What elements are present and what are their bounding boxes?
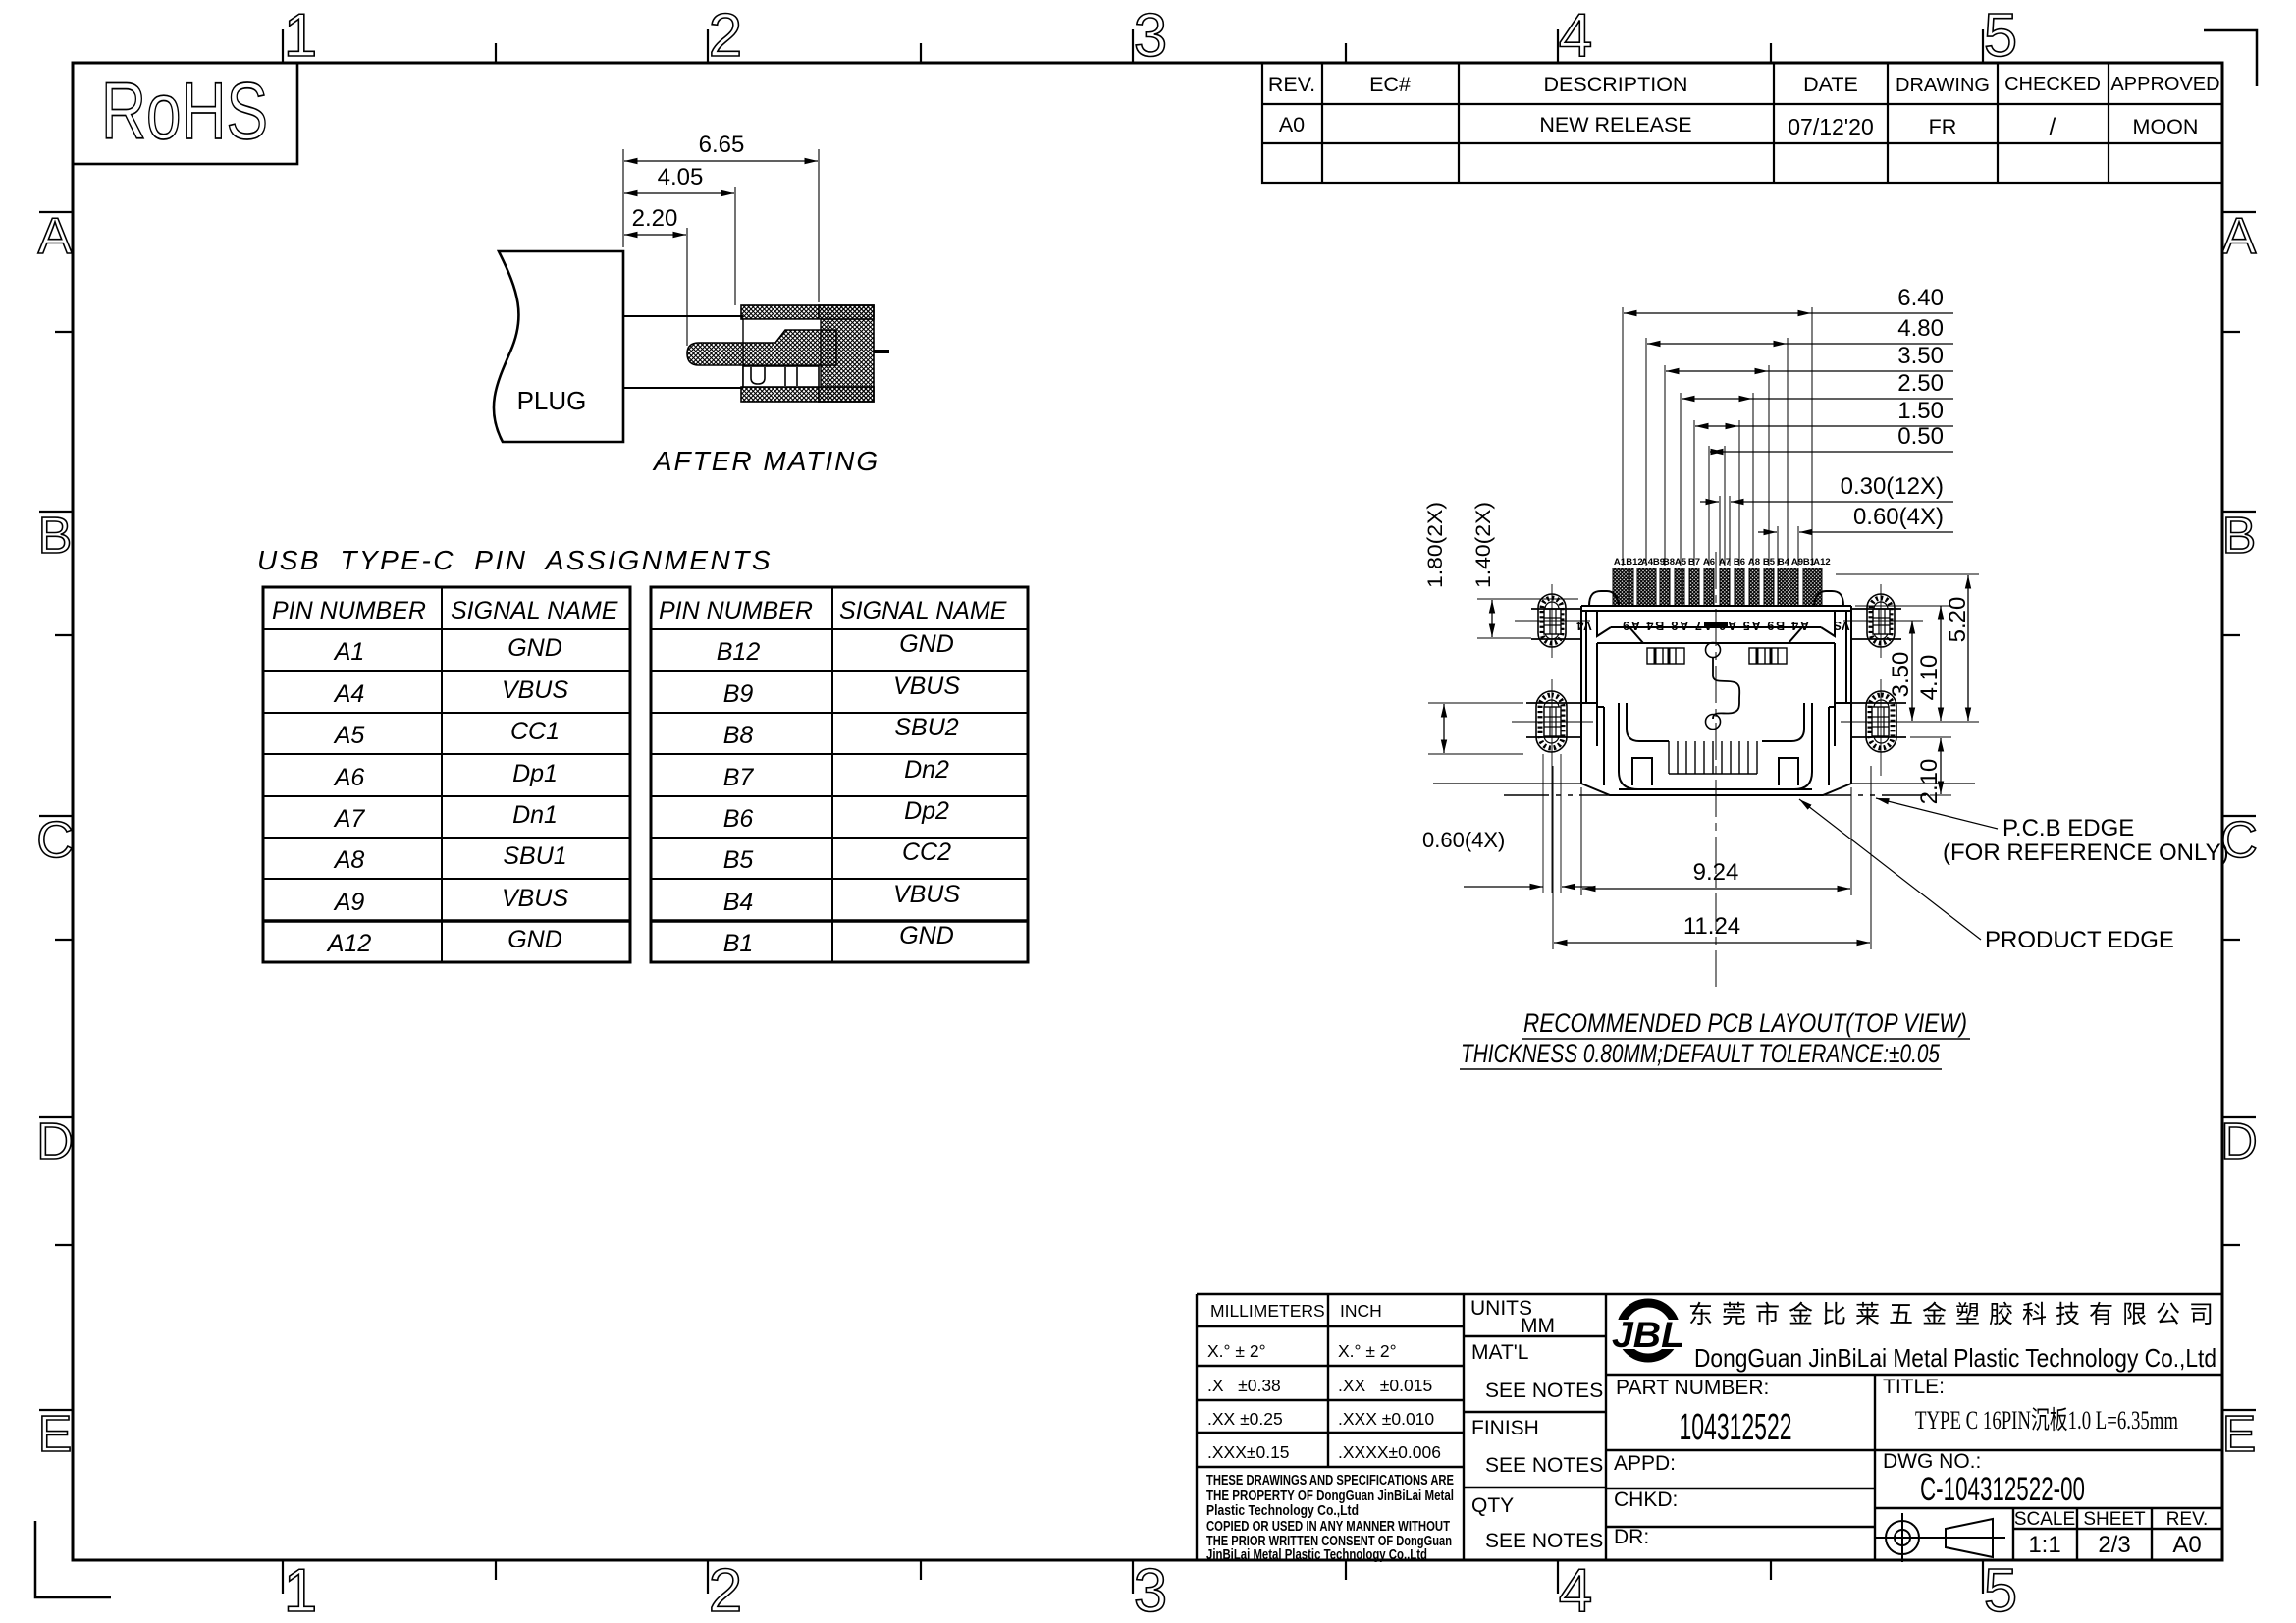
- svg-text:VBUS: VBUS: [502, 676, 568, 704]
- svg-text:A: A: [2222, 208, 2257, 265]
- svg-text:PIN NUMBER: PIN NUMBER: [272, 597, 426, 624]
- svg-text:.XXX ±0.010: .XXX ±0.010: [1338, 1409, 1434, 1429]
- svg-text:CC1: CC1: [510, 718, 560, 745]
- leaders: [1799, 798, 1998, 940]
- svg-text:CC2: CC2: [902, 839, 951, 866]
- svg-text:PART NUMBER:: PART NUMBER:: [1616, 1377, 1769, 1399]
- svg-text:07/12'20: 07/12'20: [1788, 114, 1874, 139]
- svg-text:SEE NOTES: SEE NOTES: [1485, 1530, 1603, 1552]
- right mid ticks: [2222, 331, 2240, 333]
- svg-text:5: 5: [1984, 2, 2017, 70]
- svg-text:SEE NOTES: SEE NOTES: [1485, 1454, 1603, 1477]
- svg-text:JinBiLai Metal Plastic Technol: JinBiLai Metal Plastic Technology Co.,Lt…: [1206, 1547, 1427, 1563]
- plug cable outline with break line: [494, 251, 623, 442]
- svg-text:THESE DRAWINGS AND SPECIFICATI: THESE DRAWINGS AND SPECIFICATIONS ARE: [1206, 1473, 1454, 1488]
- svg-text:0.60(4X): 0.60(4X): [1853, 504, 1944, 530]
- svg-text:0.30(12X): 0.30(12X): [1841, 473, 1944, 500]
- svg-text:SEE NOTES: SEE NOTES: [1485, 1380, 1603, 1402]
- svg-text:.XXX±0.15: .XXX±0.15: [1207, 1442, 1290, 1462]
- svg-text:FR: FR: [1929, 115, 1957, 138]
- circles: [1706, 643, 1721, 658]
- svg-text:1:1: 1:1: [2028, 1532, 2060, 1558]
- svg-text:A0: A0: [1279, 113, 1305, 136]
- RoHS marking box: [73, 63, 297, 164]
- title block: [1197, 1294, 2222, 1563]
- right letter overbars: [2222, 211, 2256, 213]
- corner brackets: [2204, 30, 2257, 86]
- pcb dash-dot edge line: [1504, 794, 1926, 796]
- svg-text:SHEET: SHEET: [2083, 1509, 2146, 1530]
- body shell: [1581, 591, 1851, 795]
- svg-text:.X ±0.38: .X ±0.38: [1207, 1376, 1281, 1395]
- plug barrel lines: [623, 315, 743, 317]
- svg-text:0.60(4X): 0.60(4X): [1422, 828, 1505, 852]
- receptacle hatched shell bottom bar: [741, 387, 874, 402]
- S curve: [1713, 658, 1739, 719]
- top ladder extension verticals: [1623, 307, 1812, 566]
- svg-text:A12: A12: [1813, 557, 1830, 568]
- USB Type-C pin assignment tables: [257, 545, 1028, 962]
- svg-text:CHECKED: CHECKED: [2004, 74, 2101, 95]
- svg-text:B4: B4: [723, 889, 754, 916]
- svg-text:3.50: 3.50: [1888, 652, 1914, 698]
- svg-text:A8: A8: [333, 846, 365, 874]
- svg-text:5: 5: [1984, 1557, 2017, 1623]
- svg-text:A4: A4: [1641, 557, 1654, 568]
- svg-text:2: 2: [709, 1557, 742, 1623]
- svg-text:11.24: 11.24: [1683, 913, 1740, 940]
- svg-text:2.20: 2.20: [632, 205, 678, 232]
- svg-text:B6: B6: [723, 805, 754, 833]
- left mid ticks: [55, 331, 73, 333]
- svg-text:3.50: 3.50: [1897, 343, 1944, 369]
- contact comb: [1668, 741, 1670, 774]
- lower shell outline: [1597, 703, 1835, 746]
- svg-text:A1: A1: [333, 638, 365, 666]
- band under pads: [1611, 626, 1821, 628]
- svg-text:X.° ± 2°: X.° ± 2°: [1207, 1341, 1266, 1361]
- svg-text:MILLIMETERS: MILLIMETERS: [1210, 1301, 1325, 1321]
- svg-text:B1: B1: [723, 930, 754, 957]
- svg-text:Dn1: Dn1: [512, 801, 558, 829]
- lower tabs bands: [1581, 702, 1597, 704]
- JBL logo: [1608, 1303, 1688, 1358]
- svg-text:GND: GND: [899, 922, 954, 949]
- after-mating plug section view: [494, 132, 889, 476]
- svg-text:SIGNAL NAME: SIGNAL NAME: [839, 597, 1007, 624]
- tail pin: [874, 350, 889, 353]
- feet steps: [1632, 758, 1652, 785]
- svg-text:2: 2: [709, 2, 742, 70]
- svg-text:PIN NUMBER: PIN NUMBER: [659, 597, 813, 624]
- svg-text:C-104312522-00: C-104312522-00: [1920, 1471, 2085, 1508]
- svg-text:GND: GND: [507, 634, 562, 662]
- svg-text:MM: MM: [1521, 1315, 1555, 1337]
- top number bars: [282, 29, 284, 63]
- dimension lines: [624, 161, 818, 235]
- striped rects: [1647, 648, 1684, 664]
- bottom chamfer: [1619, 788, 1812, 790]
- svg-text:4: 4: [1559, 1557, 1592, 1623]
- svg-text:Dp2: Dp2: [904, 797, 949, 825]
- revision history table: [1262, 63, 2222, 183]
- svg-text:1.50: 1.50: [1897, 398, 1944, 424]
- svg-text:3: 3: [1134, 2, 1167, 70]
- svg-text:FINISH: FINISH: [1471, 1417, 1539, 1439]
- svg-text:A8: A8: [1748, 557, 1760, 568]
- svg-text:1.80(2X): 1.80(2X): [1424, 502, 1447, 588]
- receptacle hatched shell top bar: [741, 305, 874, 319]
- svg-text:JBL: JBL: [1612, 1315, 1684, 1355]
- svg-text:A5: A5: [333, 722, 365, 749]
- svg-text:B9: B9: [723, 680, 754, 708]
- svg-text:5.20: 5.20: [1945, 597, 1971, 643]
- svg-text:2.50: 2.50: [1897, 370, 1944, 397]
- svg-text:RECOMMENDED PCB LAYOUT(TOP VIE: RECOMMENDED PCB LAYOUT(TOP VIEW): [1523, 1008, 1967, 1038]
- svg-text:B12: B12: [717, 638, 761, 666]
- svg-text:6.40: 6.40: [1897, 285, 1944, 311]
- svg-text:A0: A0: [2172, 1532, 2201, 1558]
- recommended PCB layout drawing: [1433, 552, 1975, 987]
- bottom mid ticks: [495, 1560, 497, 1580]
- PCB layout dimensions: [1422, 285, 2229, 953]
- svg-text:C: C: [36, 812, 74, 869]
- right dims: [1836, 574, 1979, 795]
- svg-text:Dp1: Dp1: [512, 760, 558, 787]
- oval centerlines: [1512, 584, 1922, 893]
- svg-text:6.65: 6.65: [699, 132, 745, 158]
- svg-text:Dn2: Dn2: [904, 756, 949, 784]
- svg-text:RoHS: RoHS: [101, 67, 268, 156]
- left rotated dims: [1424, 502, 1495, 588]
- extension lines: [623, 149, 819, 346]
- svg-text:Plastic Technology Co.,Ltd: Plastic Technology Co.,Ltd: [1206, 1503, 1359, 1519]
- svg-text:QTY: QTY: [1471, 1494, 1514, 1517]
- svg-text:MOON: MOON: [2133, 115, 2199, 138]
- mounting pad ovals (4X): [1536, 594, 1896, 752]
- svg-text:APPROVED: APPROVED: [2110, 74, 2219, 95]
- svg-text:NEW RELEASE: NEW RELEASE: [1539, 113, 1691, 136]
- svg-text:1: 1: [284, 1557, 317, 1623]
- svg-text:DongGuan JinBiLai Metal Plasti: DongGuan JinBiLai Metal Plastic Technolo…: [1694, 1343, 2216, 1373]
- mating tongue hatched: [687, 330, 836, 365]
- svg-text:B5: B5: [723, 846, 754, 874]
- svg-text:VBUS: VBUS: [502, 885, 568, 912]
- lower contact cavity: [743, 366, 819, 387]
- svg-text:A12: A12: [326, 930, 372, 957]
- svg-text:A1: A1: [1614, 557, 1627, 568]
- svg-text:3: 3: [1134, 1557, 1167, 1623]
- svg-text:SBU2: SBU2: [894, 714, 958, 741]
- svg-text:B8: B8: [723, 722, 754, 749]
- svg-text:.XX ±0.25: .XX ±0.25: [1207, 1409, 1283, 1429]
- svg-text:9.24: 9.24: [1693, 859, 1739, 886]
- svg-text:THE PROPERTY OF DongGuan JinBi: THE PROPERTY OF DongGuan JinBiLai Metal: [1206, 1488, 1454, 1504]
- svg-text:DWG NO.:: DWG NO.:: [1883, 1450, 1981, 1473]
- svg-text:2/3: 2/3: [2098, 1532, 2130, 1558]
- svg-text:4.05: 4.05: [658, 164, 704, 190]
- top ladder dim lines: [1624, 313, 1953, 532]
- svg-text:E: E: [2222, 1406, 2257, 1463]
- svg-text:AFTER MATING: AFTER MATING: [652, 446, 880, 476]
- black tick: [1704, 622, 1728, 627]
- svg-text:D: D: [2220, 1113, 2258, 1170]
- svg-text:4.80: 4.80: [1897, 315, 1944, 342]
- svg-text:104312522: 104312522: [1680, 1407, 1792, 1448]
- left letter overbars: [39, 211, 73, 213]
- bottom number bars: [282, 1560, 284, 1594]
- svg-text:INCH: INCH: [1340, 1301, 1382, 1321]
- svg-text:MAT'L: MAT'L: [1471, 1341, 1528, 1364]
- svg-text:B: B: [38, 508, 73, 565]
- tongue shoulders: [1611, 627, 1643, 643]
- svg-text:SBU1: SBU1: [503, 842, 566, 870]
- svg-text:4: 4: [1559, 2, 1592, 70]
- svg-text:PLUG: PLUG: [517, 386, 587, 415]
- svg-text:APPD:: APPD:: [1614, 1452, 1676, 1475]
- svg-text:E: E: [38, 1406, 73, 1463]
- svg-text:A4: A4: [333, 680, 365, 708]
- svg-text:CHKD:: CHKD:: [1614, 1488, 1678, 1511]
- tiny pin labels above pads: [1614, 557, 1831, 568]
- svg-text:X.° ± 2°: X.° ± 2°: [1338, 1341, 1397, 1361]
- bottom dims: [1553, 766, 1871, 949]
- svg-text:A9: A9: [333, 889, 365, 916]
- svg-text:A: A: [38, 208, 73, 265]
- svg-text:SCALE: SCALE: [2014, 1509, 2075, 1530]
- svg-text:DESCRIPTION: DESCRIPTION: [1544, 73, 1688, 96]
- svg-text:USB TYPE-C PIN ASSIGNMENTS: USB TYPE-C PIN ASSIGNMENTS: [257, 545, 773, 575]
- upper tab lines: [1433, 609, 1975, 784]
- svg-text:(FOR REFERENCE ONLY): (FOR REFERENCE ONLY): [1943, 839, 2229, 866]
- svg-text:2.10: 2.10: [1916, 759, 1943, 805]
- svg-text:TITLE:: TITLE:: [1883, 1376, 1945, 1398]
- svg-text:B4: B4: [1778, 557, 1790, 568]
- svg-text:B: B: [2222, 508, 2257, 565]
- svg-text:B7: B7: [723, 764, 755, 791]
- svg-text:VBUS: VBUS: [893, 881, 960, 908]
- svg-text:COPIED OR USED IN ANY MANNER W: COPIED OR USED IN ANY MANNER WITHOUT: [1206, 1519, 1450, 1535]
- inner mid verticals: [1596, 643, 1598, 703]
- svg-text:PRODUCT EDGE: PRODUCT EDGE: [1985, 927, 2174, 953]
- svg-text:GND: GND: [899, 630, 954, 658]
- svg-text:DATE: DATE: [1803, 73, 1858, 96]
- projection symbol: [1876, 1513, 2005, 1562]
- svg-text:REV.: REV.: [2166, 1509, 2209, 1530]
- svg-text:DR:: DR:: [1614, 1526, 1649, 1548]
- svg-text:SIGNAL NAME: SIGNAL NAME: [451, 597, 618, 624]
- svg-text:A6: A6: [333, 764, 365, 791]
- svg-text:VBUS: VBUS: [893, 673, 960, 700]
- svg-text:1.40(2X): 1.40(2X): [1472, 502, 1495, 588]
- svg-text:1: 1: [284, 2, 317, 70]
- svg-text:0.50: 0.50: [1897, 423, 1944, 450]
- svg-text:.XX ±0.015: .XX ±0.015: [1338, 1376, 1432, 1395]
- svg-text:EC#: EC#: [1369, 73, 1411, 96]
- svg-text:THICKNESS 0.80MM;DEFAULT TOLER: THICKNESS 0.80MM;DEFAULT TOLERANCE:±0.05: [1461, 1039, 1941, 1068]
- svg-text:A7: A7: [333, 805, 366, 833]
- svg-text:D: D: [36, 1113, 74, 1170]
- svg-text:4.10: 4.10: [1916, 655, 1943, 701]
- svg-text:REV.: REV.: [1268, 73, 1315, 96]
- solder pads row A1-A12/B1-B12: [1613, 568, 1822, 606]
- layout notes: [1460, 1008, 1970, 1069]
- top mid ticks: [495, 43, 497, 63]
- svg-text:TYPE C 16PIN沉板1.0 L=6.35mm: TYPE C 16PIN沉板1.0 L=6.35mm: [1915, 1406, 2178, 1434]
- svg-text:.XXXX±0.006: .XXXX±0.006: [1338, 1442, 1441, 1462]
- svg-text:GND: GND: [507, 926, 562, 953]
- svg-text:东莞市金比莱五金塑胶科技有限公司: 东莞市金比莱五金塑胶科技有限公司: [1688, 1301, 2222, 1328]
- svg-text:/: /: [2050, 114, 2056, 140]
- svg-text:A9: A9: [1791, 557, 1803, 568]
- svg-text:P.C.B EDGE: P.C.B EDGE: [2002, 815, 2134, 841]
- svg-text:DRAWING: DRAWING: [1896, 75, 1990, 96]
- center vertical axis: [1715, 552, 1717, 987]
- receptacle hatched back block: [819, 305, 874, 402]
